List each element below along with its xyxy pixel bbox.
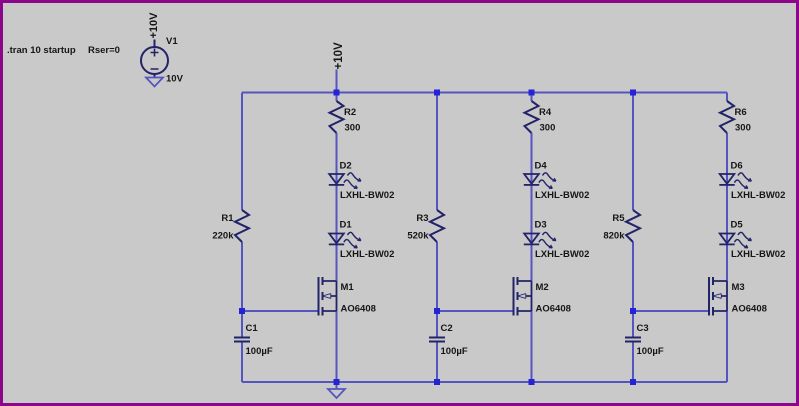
node dot bottom bus 4 <box>630 379 636 385</box>
ground (bottom) <box>328 389 345 398</box>
svg-text:D2: D2 <box>340 161 352 172</box>
node dot top bus 3 <box>529 90 535 96</box>
svg-text:100µF: 100µF <box>637 346 664 357</box>
node dot bottom bus 3 <box>529 379 535 385</box>
svg-text:D5: D5 <box>731 220 744 231</box>
wire gate M3 <box>633 310 709 312</box>
wire gate M1 <box>242 310 319 312</box>
wire flag stub <box>336 70 338 93</box>
svg-text:LXHL-BW02: LXHL-BW02 <box>340 190 394 201</box>
LED D3 <box>524 232 556 247</box>
svg-text:LXHL-BW02: LXHL-BW02 <box>731 190 785 201</box>
transistor M3 <box>709 277 727 316</box>
wire left column 3 <box>632 93 634 383</box>
svg-text:C2: C2 <box>441 323 453 334</box>
transistor M1 <box>319 277 337 316</box>
node dot top bus 4 <box>630 90 636 96</box>
svg-text:D1: D1 <box>340 220 353 231</box>
wire left column 2 <box>436 93 438 383</box>
svg-text:R1: R1 <box>221 213 234 224</box>
wire gate M2 <box>437 310 514 312</box>
svg-text:R3: R3 <box>416 213 428 224</box>
svg-text:R2: R2 <box>344 107 356 118</box>
ground (V1) <box>146 78 163 87</box>
svg-text:10V: 10V <box>166 74 184 85</box>
svg-text:R5: R5 <box>612 213 625 224</box>
svg-text:100µF: 100µF <box>246 346 273 357</box>
wire V1 bottom stub <box>154 74 156 78</box>
wire left column 1 <box>241 93 243 383</box>
node dot gate tee 3 <box>630 308 636 314</box>
voltage source V1 <box>141 47 168 74</box>
svg-text:LXHL-BW02: LXHL-BW02 <box>535 190 589 201</box>
resistor R1 <box>235 210 249 242</box>
LED D2 <box>329 173 361 188</box>
node dot gate tee 2 <box>434 308 440 314</box>
svg-text:300: 300 <box>345 123 361 134</box>
svg-text:M3: M3 <box>732 282 745 293</box>
capacitor C3 <box>625 338 641 342</box>
svg-text:AO6408: AO6408 <box>536 304 571 315</box>
svg-text:100µF: 100µF <box>441 346 468 357</box>
resistor R2 <box>330 101 344 133</box>
resistor R3 <box>430 210 444 242</box>
svg-text:.tran 10 startup: .tran 10 startup <box>7 45 76 56</box>
svg-text:C1: C1 <box>246 323 259 334</box>
capacitor C2 <box>429 338 445 342</box>
svg-text:300: 300 <box>540 123 556 134</box>
svg-text:D4: D4 <box>535 161 548 172</box>
svg-text:C3: C3 <box>637 323 649 334</box>
svg-text:+10V: +10V <box>148 12 160 39</box>
wire branch column 2 <box>531 93 533 383</box>
svg-text:V1: V1 <box>166 36 178 47</box>
svg-text:AO6408: AO6408 <box>732 304 767 315</box>
LED D6 <box>719 173 751 188</box>
svg-text:LXHL-BW02: LXHL-BW02 <box>731 249 785 260</box>
resistor R5 <box>626 210 640 242</box>
svg-text:LXHL-BW02: LXHL-BW02 <box>340 249 394 260</box>
svg-text:R4: R4 <box>539 107 552 118</box>
wire branch column 3 <box>726 93 728 383</box>
wire branch column 1 <box>336 93 338 383</box>
svg-text:220k: 220k <box>212 231 234 242</box>
svg-text:D6: D6 <box>731 161 743 172</box>
wire top bus <box>242 92 727 94</box>
svg-text:520k: 520k <box>407 231 429 242</box>
svg-text:300: 300 <box>735 123 751 134</box>
transistor M2 <box>514 277 532 316</box>
svg-text:R6: R6 <box>735 107 747 118</box>
resistor R4 <box>525 101 539 133</box>
node dot gate tee 1 <box>239 308 245 314</box>
node dot bottom bus 1 <box>334 379 340 385</box>
svg-text:M2: M2 <box>536 282 549 293</box>
svg-text:+10V: +10V <box>333 42 345 70</box>
LED D1 <box>329 232 361 247</box>
svg-text:M1: M1 <box>341 282 355 293</box>
svg-text:D3: D3 <box>535 220 547 231</box>
svg-text:LXHL-BW02: LXHL-BW02 <box>535 249 589 260</box>
LED D5 <box>719 232 751 247</box>
node dot bottom bus 2 <box>434 379 440 385</box>
wire bottom bus <box>242 381 727 383</box>
wire V1 top stub <box>154 40 156 48</box>
node dot top bus 1 <box>334 90 340 96</box>
wire ground stub <box>336 382 338 389</box>
svg-text:Rser=0: Rser=0 <box>88 45 120 56</box>
capacitor C1 <box>234 338 250 342</box>
node dot top bus 2 <box>434 90 440 96</box>
svg-text:820k: 820k <box>603 231 625 242</box>
resistor R6 <box>720 101 734 133</box>
LED D4 <box>524 173 556 188</box>
svg-text:AO6408: AO6408 <box>341 304 376 315</box>
